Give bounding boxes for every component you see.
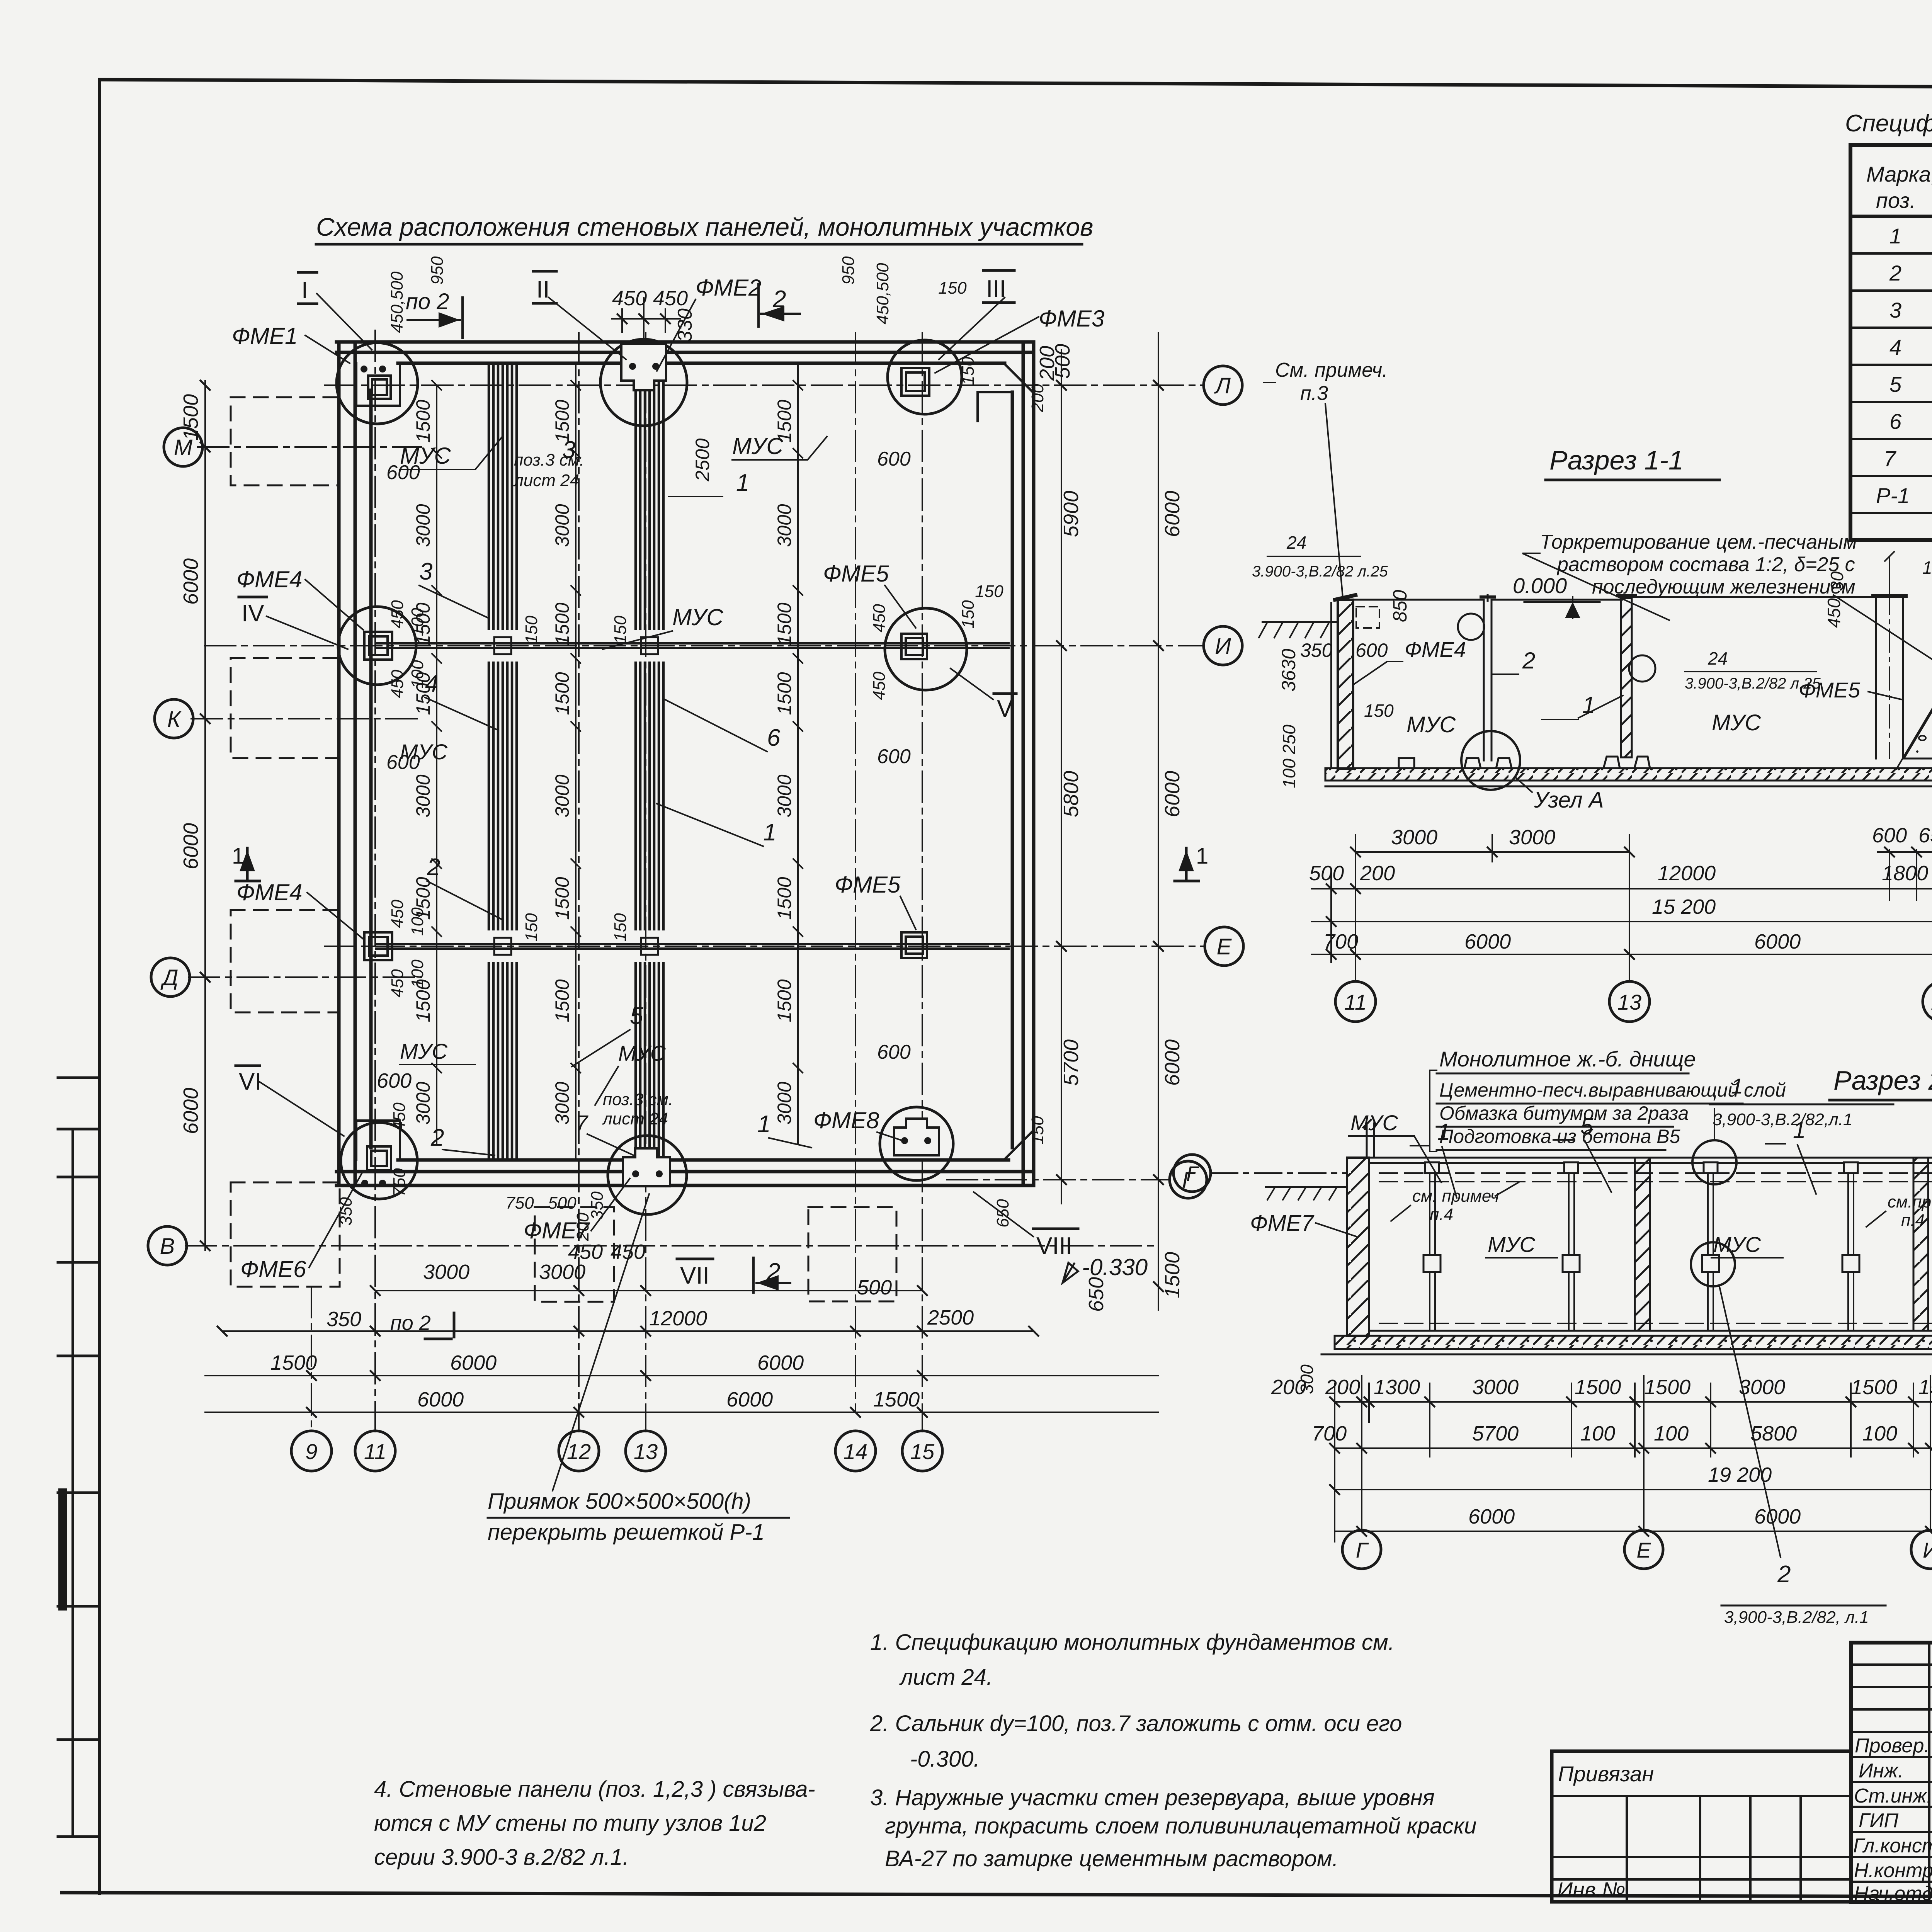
wall keys on slab	[1399, 757, 1650, 768]
svg-text:1: 1	[1731, 1074, 1743, 1098]
svg-text:4: 4	[425, 670, 438, 697]
svg-text:1800: 1800	[1882, 862, 1928, 885]
svg-text:Обмазка битумом за 2раза: Обмазка битумом за 2раза	[1439, 1102, 1689, 1124]
top edge	[1369, 1158, 1932, 1163]
svg-text:950: 950	[839, 256, 858, 285]
bottom interior lines	[1379, 1323, 1932, 1324]
svg-text:МУС: МУС	[618, 1041, 666, 1065]
svg-text:2: 2	[1522, 648, 1535, 673]
svg-text:1: 1	[736, 469, 749, 496]
tank body: left wall	[1347, 1158, 1369, 1336]
svg-text:Приямок 500×500×500(h): Приямок 500×500×500(h)	[488, 1489, 751, 1514]
svg-text:3.900-3,В.2/82 л.25: 3.900-3,В.2/82 л.25	[1252, 563, 1388, 580]
svg-text:6000: 6000	[1754, 930, 1801, 953]
svg-text:МУС: МУС	[1488, 1232, 1535, 1257]
interior walls hatched	[1635, 1158, 1650, 1331]
svg-text:3: 3	[419, 558, 432, 585]
svg-text:2: 2	[1889, 261, 1901, 285]
spec table header text	[1866, 156, 1932, 213]
svg-text:500: 500	[1309, 862, 1344, 885]
svg-text:6000: 6000	[417, 1388, 464, 1411]
svg-text:п.4: п.4	[1901, 1211, 1925, 1230]
svg-text:150: 150	[611, 616, 630, 644]
svg-text:3000: 3000	[774, 504, 795, 547]
svg-text:3000: 3000	[551, 774, 573, 817]
svg-text:1500: 1500	[873, 1388, 920, 1411]
svg-text:1: 1	[1889, 224, 1901, 248]
svg-text:1500: 1500	[551, 877, 573, 920]
svg-text:500: 500	[548, 1194, 577, 1213]
svg-text:п.3: п.3	[1300, 382, 1328, 405]
svg-text:ФМЕ4: ФМЕ4	[236, 566, 302, 592]
svg-text:500: 500	[857, 1276, 892, 1299]
svg-text:по 2: по 2	[390, 1311, 431, 1335]
svg-text:Спецификация к схеме расположе: Спецификация к схеме расположения стенов…	[1845, 110, 1932, 137]
svg-text:1500: 1500	[774, 602, 795, 645]
spec table rows text	[1876, 224, 1932, 508]
svg-text:200: 200	[1360, 862, 1395, 885]
axis circles left М К Д В	[148, 428, 202, 1265]
svg-text:350: 350	[327, 1308, 361, 1331]
svg-text:3000: 3000	[1509, 826, 1555, 849]
svg-text:5700: 5700	[1060, 1039, 1083, 1086]
svg-text:Привязан: Привязан	[1558, 1762, 1654, 1786]
svg-text:4. Стеновые панели (поз. 1,2,: 4. Стеновые панели (поз. 1,2,3 ) связыва…	[374, 1777, 815, 1802]
svg-text:150: 150	[522, 913, 541, 942]
svg-text:450: 450	[653, 287, 688, 310]
svg-text:1300: 1300	[1374, 1376, 1420, 1399]
svg-text:5800: 5800	[1060, 771, 1083, 817]
svg-text:1500: 1500	[551, 979, 573, 1022]
svg-text:30: 30	[1827, 571, 1847, 591]
svg-text:2: 2	[427, 854, 440, 881]
svg-text:5: 5	[1580, 1113, 1594, 1139]
svg-text:6: 6	[1889, 409, 1902, 434]
spec table grid	[1850, 145, 1932, 540]
axis circles right Л И Е Г	[1170, 366, 1243, 1198]
svg-text:7: 7	[1884, 446, 1896, 471]
svg-text:2. Сальник dу=100, поз.7 зал: 2. Сальник dу=100, поз.7 заложить с отм.…	[870, 1711, 1402, 1736]
svg-text:МУС: МУС	[732, 433, 783, 459]
gaps in bands at partition rows	[485, 630, 667, 962]
svg-text:6000: 6000	[1161, 771, 1184, 817]
svg-text:650: 650	[1918, 824, 1932, 847]
svg-text:6000: 6000	[179, 558, 202, 605]
svg-text:6000: 6000	[726, 1388, 773, 1411]
svg-text:см.прим.: см.прим.	[1888, 1192, 1932, 1211]
svg-text:Узел А: Узел А	[1534, 787, 1604, 813]
svg-text:6000: 6000	[1464, 930, 1511, 953]
plan dimension lines below	[205, 333, 1158, 1412]
middle wall poz1 hatched	[1621, 598, 1632, 757]
svg-text:5800: 5800	[1750, 1422, 1797, 1445]
svg-text:VI: VI	[239, 1068, 262, 1095]
svg-text:1500: 1500	[1918, 1376, 1932, 1399]
bottom dim texts	[270, 1260, 974, 1411]
svg-text:100: 100	[1580, 1422, 1615, 1445]
svg-text:200: 200	[1325, 1376, 1360, 1399]
600 dim labels inside plan	[386, 448, 911, 1063]
svg-text:ФМЕ5: ФМЕ5	[823, 561, 889, 587]
svg-text:ФМЕ2: ФМЕ2	[696, 275, 761, 301]
svg-text:1500: 1500	[551, 672, 573, 715]
svg-text:6000: 6000	[179, 823, 202, 869]
left axis Г circle	[1173, 1155, 1211, 1192]
svg-text:ФМЕ5: ФМЕ5	[835, 872, 901, 898]
svg-text:1500: 1500	[1575, 1376, 1621, 1399]
svg-text:1: 1	[757, 1111, 770, 1138]
svg-text:5: 5	[630, 1003, 643, 1029]
svg-text:2500: 2500	[927, 1306, 974, 1329]
svg-text:Д: Д	[160, 965, 179, 990]
svg-text:6000: 6000	[1754, 1505, 1801, 1528]
svg-text:Торкретирование цем.-песчаным: Торкретирование цем.-песчаным	[1540, 531, 1857, 553]
ground line left	[1263, 621, 1338, 623]
svg-text:12000: 12000	[649, 1307, 707, 1330]
svg-text:IV: IV	[241, 600, 264, 627]
small circle detail on wall 2	[1458, 614, 1484, 640]
svg-text:5: 5	[1889, 372, 1902, 396]
svg-text:13: 13	[1617, 990, 1641, 1014]
svg-text:6000: 6000	[1468, 1505, 1515, 1528]
svg-text:3: 3	[562, 437, 575, 463]
svg-text:450: 450	[388, 969, 407, 998]
svg-text:-0.330: -0.330	[1082, 1254, 1148, 1280]
svg-text:VII: VII	[680, 1262, 709, 1289]
svg-text:11: 11	[364, 1439, 386, 1464]
buttress triangle concrete	[1904, 619, 1932, 759]
svg-text:Инв.№: Инв.№	[1557, 1878, 1625, 1902]
svg-text:700: 700	[1312, 1422, 1347, 1445]
svg-text:6000: 6000	[757, 1351, 804, 1374]
interior wall band 1	[489, 366, 517, 1160]
svg-text:150: 150	[611, 913, 630, 942]
dashed box at left wall top	[1356, 607, 1379, 628]
svg-text:350: 350	[1300, 639, 1333, 661]
svg-text:150: 150	[975, 582, 1003, 601]
svg-text:450: 450	[390, 1102, 409, 1131]
svg-text:ФМЕ6: ФМЕ6	[240, 1256, 306, 1282]
svg-text:6000: 6000	[450, 1351, 497, 1374]
svg-text:1: 1	[763, 819, 776, 846]
axis dash-dot verticals (columns 9,11,12,13,14,15)	[311, 330, 922, 1432]
svg-text:Е: Е	[1217, 934, 1232, 959]
svg-text:ФМЕ4: ФМЕ4	[236, 879, 302, 905]
svg-text:450: 450	[612, 287, 647, 310]
svg-text:5700: 5700	[1472, 1422, 1519, 1445]
svg-text:К: К	[167, 707, 182, 732]
svg-text:600: 600	[877, 448, 911, 470]
detail circles on joint	[1692, 1140, 1736, 1184]
svg-text:1500: 1500	[551, 400, 573, 442]
svg-text:МУС: МУС	[1406, 712, 1456, 737]
svg-text:200: 200	[1028, 384, 1047, 413]
svg-text:100: 100	[408, 959, 427, 988]
svg-text:12000: 12000	[1658, 862, 1716, 885]
svg-text:В: В	[160, 1234, 175, 1259]
svg-text:600: 600	[386, 751, 420, 774]
svg-text:1500: 1500	[1644, 1376, 1690, 1399]
svg-text:100: 100	[408, 907, 427, 936]
svg-text:I: I	[301, 277, 308, 304]
svg-text:1: 1	[1196, 844, 1208, 869]
svg-text:300: 300	[1297, 1364, 1317, 1394]
svg-text:750: 750	[505, 1194, 534, 1213]
svg-text:450: 450	[870, 604, 889, 633]
svg-text:150: 150	[1028, 1116, 1047, 1145]
svg-text:грунта, покрасить слоем поли: грунта, покрасить слоем поливинилацетатн…	[885, 1813, 1476, 1838]
svg-text:Провер.: Провер.	[1855, 1735, 1930, 1757]
svg-text:МУС: МУС	[672, 604, 723, 630]
узел А circle on slab	[1461, 731, 1520, 790]
svg-text:3000: 3000	[774, 774, 795, 817]
svg-text:ФМЕ3: ФМЕ3	[1039, 306, 1104, 332]
svg-text:2: 2	[1777, 1561, 1791, 1588]
svg-text:Р-1: Р-1	[1876, 483, 1910, 508]
svg-text:950: 950	[428, 256, 447, 285]
svg-text:Разрез 2 - 2: Разрез 2 - 2	[1833, 1065, 1932, 1095]
svg-text:150: 150	[959, 357, 978, 385]
title block text	[1557, 1735, 1932, 1905]
svg-text:по 2: по 2	[406, 289, 449, 314]
svg-text:1500: 1500	[774, 672, 795, 715]
svg-text:24: 24	[1286, 532, 1306, 553]
left edge fold marks	[71, 1129, 74, 1837]
wall corner steps	[356, 363, 1012, 1160]
svg-text:600: 600	[877, 1041, 911, 1063]
svg-text:1500: 1500	[551, 602, 573, 645]
svg-text:450: 450	[870, 672, 889, 700]
svg-text:см. примеч: см. примеч	[1412, 1187, 1499, 1206]
svg-text:3000: 3000	[412, 504, 434, 547]
svg-text:Подготовка из бетона В5: Подготовка из бетона В5	[1439, 1126, 1680, 1147]
svg-text:100: 100	[408, 608, 427, 636]
svg-text:0.000: 0.000	[1513, 573, 1567, 598]
svg-text:ГИП: ГИП	[1859, 1810, 1898, 1832]
svg-text:Нач.отд.: Нач.отд.	[1854, 1883, 1932, 1905]
svg-text:3: 3	[1889, 298, 1901, 322]
svg-text:поз.: поз.	[1876, 188, 1916, 213]
svg-text:450: 450	[388, 900, 407, 928]
svg-text:3000: 3000	[1472, 1376, 1519, 1399]
svg-text:6: 6	[767, 724, 781, 751]
interior wall band 2	[636, 366, 663, 1160]
svg-text:2: 2	[430, 1124, 444, 1151]
svg-text:1500: 1500	[1161, 1252, 1184, 1298]
svg-text:МУС: МУС	[1713, 1232, 1761, 1257]
svg-text:ВА-27 по затирке цементным: ВА-27 по затирке цементным раствором.	[885, 1846, 1338, 1871]
svg-text:VIII: VIII	[1036, 1233, 1072, 1259]
svg-text:лист 24: лист 24	[602, 1109, 668, 1128]
svg-text:Е: Е	[1636, 1538, 1651, 1562]
dashed monolith rectangles left of plan	[231, 397, 896, 1302]
svg-text:ФМЕ7: ФМЕ7	[1250, 1211, 1315, 1236]
svg-text:600: 600	[386, 461, 420, 484]
svg-text:ФМЕ8: ФМЕ8	[813, 1107, 879, 1133]
svg-text:лист 24.: лист 24.	[899, 1665, 993, 1690]
right wall ФМЕ5	[1876, 595, 1903, 759]
svg-text:450: 450	[388, 670, 407, 698]
svg-text:3. Наружные участки стен ре: 3. Наружные участки стен резервуара, выш…	[870, 1785, 1435, 1810]
svg-text:24: 24	[1708, 648, 1728, 668]
dimension tick slashes	[201, 381, 1163, 1417]
svg-text:3000: 3000	[412, 774, 434, 817]
small dim clusters plan	[337, 256, 1047, 1242]
svg-text:100: 100	[408, 660, 427, 689]
svg-text:3,900-3,В.2/82,л.1: 3,900-3,В.2/82,л.1	[1713, 1110, 1852, 1129]
svg-text:1500: 1500	[270, 1351, 317, 1374]
svg-text:450: 450	[568, 1240, 603, 1264]
svg-text:Гл.конст.: Гл.конст.	[1853, 1835, 1932, 1857]
base slab	[1325, 768, 1932, 781]
svg-text:850: 850	[1389, 590, 1411, 622]
svg-text:450,500: 450,500	[388, 271, 406, 333]
svg-text:1500: 1500	[1851, 1376, 1897, 1399]
svg-text:II: II	[536, 276, 549, 303]
interior vertical dim stacks	[412, 400, 795, 1124]
svg-text:150: 150	[522, 616, 541, 644]
svg-text:150: 150	[959, 600, 978, 629]
svg-text:3000: 3000	[539, 1260, 585, 1284]
svg-text:МУС: МУС	[400, 1039, 447, 1063]
svg-text:Схема расположения стеновых па: Схема расположения стеновых панелей, мон…	[316, 213, 1093, 241]
svg-text:3000: 3000	[551, 504, 573, 547]
T-shaped monolith blocks ФМЕ2 ФМЕ7 ФМЕ8	[621, 344, 939, 1186]
svg-text:Монолитное ж.-б. днище: Монолитное ж.-б. днище	[1439, 1047, 1696, 1071]
svg-text:раствором состава 1:2, δ=25 с: раствором состава 1:2, δ=25 с	[1556, 553, 1855, 576]
svg-text:1500: 1500	[774, 877, 795, 920]
svg-text:1: 1	[1437, 1119, 1450, 1145]
svg-text:И: И	[1215, 634, 1231, 659]
base slab	[1335, 1336, 1932, 1349]
svg-text:ются с МУ стены по типу у: ются с МУ стены по типу узлов 1и2	[374, 1811, 766, 1836]
svg-text:450: 450	[1824, 598, 1844, 628]
svg-text:330: 330	[674, 308, 696, 342]
svg-text:100: 100	[1279, 759, 1299, 788]
svg-text:3000: 3000	[551, 1082, 573, 1124]
svg-text:МУС: МУС	[1350, 1111, 1398, 1135]
svg-text:12: 12	[567, 1439, 591, 1464]
svg-text:150: 150	[938, 279, 967, 298]
svg-text:1: 1	[1582, 692, 1595, 718]
svg-text:600: 600	[377, 1069, 412, 1092]
svg-text:14: 14	[844, 1439, 867, 1464]
svg-text:750: 750	[390, 1168, 409, 1197]
svg-text:450,500: 450,500	[873, 263, 892, 325]
small tick marks on interior dim stacks	[432, 381, 803, 1073]
svg-text:Инж.: Инж.	[1859, 1760, 1903, 1782]
svg-text:15 200: 15 200	[1652, 895, 1716, 918]
axis dash-dot horizontals	[185, 385, 1204, 1246]
svg-text:2500: 2500	[692, 438, 713, 481]
svg-text:6000: 6000	[1161, 1039, 1184, 1086]
right dim rotated texts	[1036, 344, 1184, 1312]
svg-text:ФМЕ7: ФМЕ7	[524, 1218, 590, 1243]
svg-text:Н.контр: Н.контр	[1854, 1859, 1932, 1882]
anchor upstand above left wall	[1363, 1120, 1374, 1158]
svg-text:250: 250	[1279, 724, 1299, 755]
svg-text:150: 150	[1922, 558, 1932, 578]
ground line left	[1266, 1186, 1347, 1188]
svg-text:-0.300.: -0.300.	[910, 1747, 980, 1772]
svg-text:600: 600	[1355, 639, 1388, 661]
svg-text:3,900-3,В.2/82, л.1: 3,900-3,В.2/82, л.1	[1724, 1608, 1869, 1627]
svg-text:13: 13	[634, 1439, 658, 1464]
top edges 0.000	[1353, 599, 1621, 601]
svg-text:Ст.инж.: Ст.инж.	[1854, 1785, 1932, 1807]
svg-text:3630: 3630	[1278, 649, 1299, 692]
svg-text:6000: 6000	[1161, 491, 1184, 537]
svg-text:МУС: МУС	[1712, 710, 1761, 735]
svg-text:4: 4	[1889, 335, 1901, 359]
connector squares on bands	[494, 637, 658, 955]
svg-text:ФМЕ4: ФМЕ4	[1405, 637, 1466, 662]
svg-text:3000: 3000	[412, 1082, 434, 1124]
joint squares mid height	[1423, 1162, 1932, 1272]
left dim rotated texts	[179, 394, 202, 1134]
svg-text:И: И	[1923, 1538, 1932, 1562]
svg-text:1500: 1500	[412, 400, 434, 442]
svg-text:3000: 3000	[1739, 1376, 1785, 1399]
svg-text:600: 600	[877, 745, 911, 768]
sheet frame	[100, 80, 1932, 90]
svg-text:Л: Л	[1214, 373, 1231, 398]
svg-text:3000: 3000	[1391, 826, 1437, 849]
section 1-1 dim rows	[1312, 835, 1932, 981]
svg-text:1: 1	[1793, 1117, 1806, 1143]
svg-text:1500: 1500	[179, 394, 202, 440]
svg-text:100: 100	[1862, 1422, 1897, 1445]
svg-text:ФМЕ5: ФМЕ5	[1799, 678, 1861, 702]
svg-text:650: 650	[1085, 1277, 1108, 1312]
svg-text:1. Спецификацию монолитных ф: 1. Спецификацию монолитных фундаментов с…	[870, 1630, 1395, 1655]
svg-text:600: 600	[1872, 824, 1907, 847]
svg-text:100: 100	[1654, 1422, 1689, 1445]
svg-text:150: 150	[1364, 701, 1394, 721]
svg-text:Марка,: Марка,	[1866, 162, 1932, 186]
svg-text:500: 500	[1051, 344, 1074, 379]
svg-text:6000: 6000	[179, 1088, 202, 1134]
svg-text:9: 9	[305, 1439, 317, 1464]
svg-text:перекрыть решеткой Р-1: перекрыть решеткой Р-1	[488, 1520, 765, 1545]
left wall hatched	[1338, 600, 1353, 769]
section 1-1 axis circles	[1335, 981, 1932, 1022]
svg-text:3000: 3000	[774, 1082, 795, 1124]
svg-text:См. примеч.: См. примеч.	[1275, 359, 1388, 381]
foundation squares ФМЕ	[364, 368, 929, 1170]
svg-text:лист 24: лист 24	[513, 471, 579, 490]
axis circles bottom 9 11 12 13 14 15	[291, 1431, 942, 1471]
svg-text:ФМЕ1: ФМЕ1	[232, 323, 298, 349]
svg-text:7: 7	[576, 1111, 588, 1135]
svg-text:п.4: п.4	[1430, 1205, 1453, 1224]
interior thin wall poz2	[1484, 595, 1492, 760]
svg-text:450: 450	[388, 600, 407, 629]
svg-text:поз.3 см.: поз.3 см.	[603, 1090, 673, 1109]
svg-text:Г: Г	[1186, 1162, 1199, 1186]
svg-text:Разрез 1-1: Разрез 1-1	[1549, 445, 1684, 475]
svg-text:700: 700	[1323, 930, 1358, 953]
svg-text:Г: Г	[1356, 1538, 1369, 1562]
svg-text:серии 3.900-3 в.2/82 л.1.: серии 3.900-3 в.2/82 л.1.	[374, 1845, 629, 1870]
svg-text:1500: 1500	[774, 979, 795, 1022]
svg-text:15: 15	[910, 1439, 935, 1464]
svg-text:5900: 5900	[1060, 491, 1083, 537]
svg-text:V: V	[997, 696, 1013, 722]
svg-text:11: 11	[1344, 990, 1367, 1014]
panel joints	[1430, 1163, 1932, 1331]
partition rows И and Е	[376, 643, 1009, 949]
